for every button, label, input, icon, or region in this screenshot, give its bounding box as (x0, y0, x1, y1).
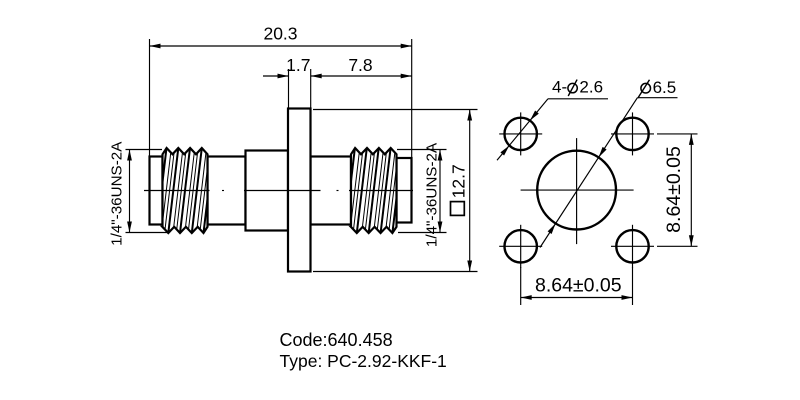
label phi6.5 (641, 83, 651, 93)
adapter body plain section left (208, 157, 246, 225)
mounting hole bottom-right phi 2.6 (616, 230, 648, 262)
left thread dimension line (129, 150, 131, 233)
svg-text:6.5: 6.5 (653, 78, 677, 97)
right thread dimension extension lines (397, 149, 447, 151)
right end cap (397, 158, 412, 223)
bottom dimension 8.64 extension lines (520, 267, 522, 305)
dimension 1.7 extension lines (288, 69, 290, 109)
dimension 20.3 extension lines (149, 39, 151, 157)
svg-text:2.6: 2.6 (579, 77, 603, 96)
center circle phi 6.5 (537, 151, 616, 230)
dimension 12.7 extension lines (313, 109, 478, 111)
mounting hole bottom-left phi 2.6 (505, 230, 537, 262)
dimension 12.7 line (469, 110, 471, 272)
adapter hex section (246, 151, 289, 231)
body section right of flange (311, 157, 352, 225)
center circle crosshair (521, 189, 634, 191)
svg-text:Code:640.458: Code:640.458 (280, 330, 393, 350)
svg-text:1.7: 1.7 (286, 55, 310, 75)
leader line phi6.5 (540, 98, 637, 248)
svg-text:1/4"-36UNS-2A: 1/4"-36UNS-2A (109, 141, 126, 246)
svg-text:12.7: 12.7 (449, 164, 469, 198)
mounting hole top-left phi 2.6 (505, 118, 537, 150)
svg-text:7.8: 7.8 (348, 55, 372, 75)
centerline of connector axis (144, 190, 413, 192)
right dimension 8.64 line (690, 134, 692, 246)
svg-text:4-: 4- (552, 77, 567, 96)
dimension 7.8 line (311, 75, 412, 77)
right dimension 8.64 extension lines (657, 133, 698, 135)
dimension text square 12.7 (rotated) (451, 202, 465, 216)
dimension 20.3 line (150, 45, 412, 47)
mounting hole top-right phi 2.6 (616, 118, 648, 150)
svg-text:Type: PC-2.92-KKF-1: Type: PC-2.92-KKF-1 (280, 351, 447, 371)
dimension 1.7 line with outside arrows (263, 75, 289, 77)
svg-text:8.64±0.05: 8.64±0.05 (535, 274, 622, 296)
leader line 4-phi2.6 (497, 99, 548, 161)
adapter body left end cap (150, 157, 163, 225)
left thread dimension extension lines (126, 149, 163, 151)
bottom dimension 8.64 line (521, 297, 633, 299)
svg-text:20.3: 20.3 (263, 24, 297, 44)
svg-text:8.64±0.05: 8.64±0.05 (663, 146, 685, 233)
mounting flange (side view) (288, 109, 311, 272)
right thread dimension line (439, 150, 441, 233)
svg-text:1/4"-36UNS-2A: 1/4"-36UNS-2A (424, 142, 441, 247)
